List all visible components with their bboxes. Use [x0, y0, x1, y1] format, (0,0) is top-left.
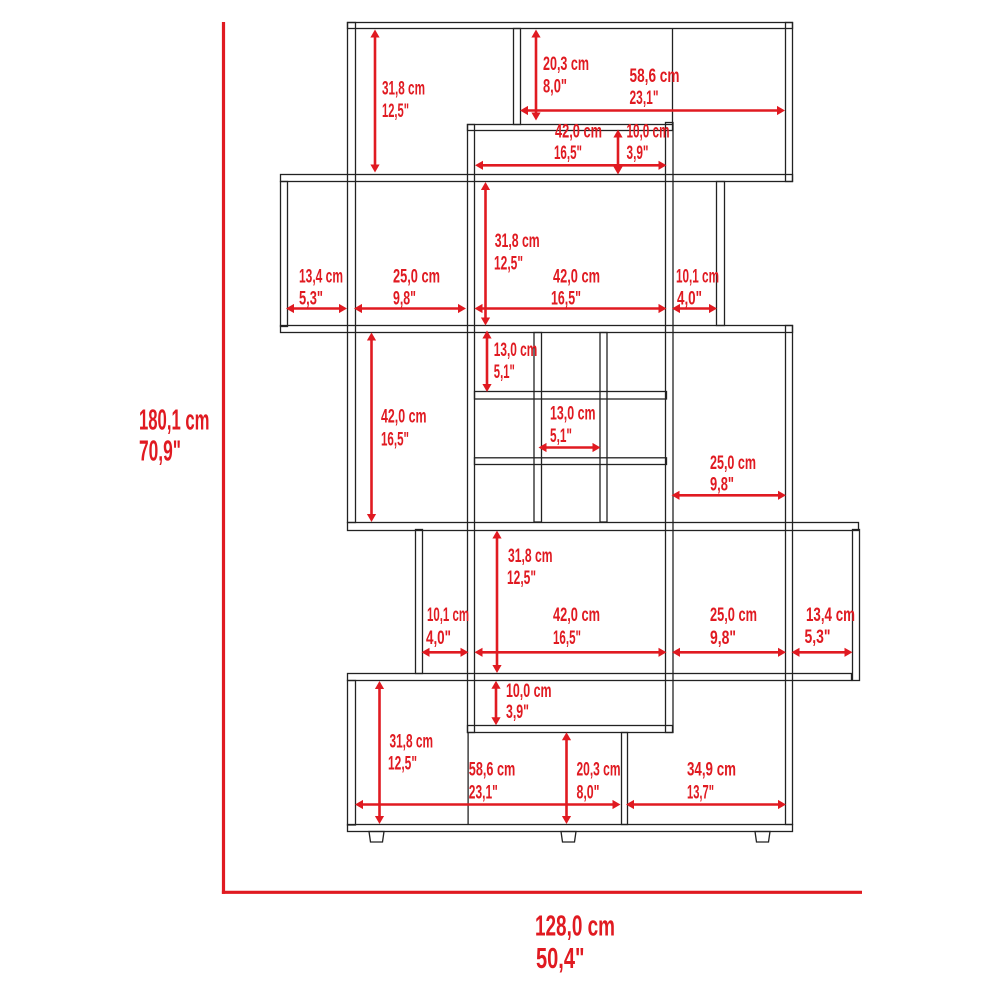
overall width dimension line [222, 891, 862, 894]
tower bottom height arrow 10,0 [491, 681, 500, 725]
svg-text:42,0 cm: 42,0 cm [553, 267, 600, 288]
level 1 height arrow 20,3 [531, 30, 540, 121]
label 5,1 in level 3 top [494, 362, 515, 383]
label 25,0 cm level 4 [710, 605, 757, 626]
slab between level 2 and level 3 [281, 326, 793, 333]
label 13,0 cm level 3 top [494, 340, 538, 361]
left foot [369, 832, 384, 843]
label 20,3 cm level 1 [543, 54, 589, 75]
level 5 width arrow 34,9 [626, 800, 786, 809]
level 2 width arrow 10,1 [672, 304, 717, 313]
level 1 divider panel [514, 29, 521, 125]
level 3 height arrow 42,0 [367, 333, 376, 523]
left panel level 5 [348, 681, 356, 826]
label 13,0 cm level 3 mid [550, 404, 596, 425]
level 4 width arrow 13,4 [792, 648, 853, 657]
label 10,1 cm level 2 [676, 267, 719, 288]
tower left panel [468, 125, 475, 733]
svg-text:4,0": 4,0" [677, 288, 702, 309]
label overall width 50,4 in [536, 943, 585, 975]
right panel levels 3-5 [786, 326, 793, 825]
level 2 right panel [717, 182, 725, 326]
label 25,0 cm level 2 [393, 267, 440, 288]
svg-text:42,0 cm: 42,0 cm [555, 122, 602, 143]
svg-text:31,8 cm: 31,8 cm [390, 732, 434, 753]
svg-text:20,3 cm: 20,3 cm [543, 54, 589, 75]
label 20,3 cm level 5 [577, 760, 621, 781]
svg-text:10,0 cm: 10,0 cm [627, 122, 670, 143]
level 2 width arrow 42,0 [475, 304, 667, 313]
svg-text:42,0 cm: 42,0 cm [553, 605, 600, 626]
label 10,1 cm level 4 [427, 605, 469, 626]
middle foot [561, 832, 576, 843]
svg-text:5,3": 5,3" [805, 627, 831, 648]
label 16,5 in level 3 [381, 429, 409, 450]
svg-text:13,7": 13,7" [687, 782, 714, 803]
label 8,0 in level 1 [543, 77, 567, 98]
svg-text:31,8 cm: 31,8 cm [495, 231, 540, 252]
slab between level 3 and level 4 [348, 523, 859, 531]
svg-text:8,0": 8,0" [543, 77, 567, 98]
svg-text:16,5": 16,5" [551, 288, 581, 309]
label 34,9 cm level 5 [687, 760, 736, 781]
label 4,0 in level 2 [677, 288, 702, 309]
svg-text:31,8 cm: 31,8 cm [382, 79, 425, 100]
svg-text:42,0 cm: 42,0 cm [381, 407, 427, 428]
label overall height 180,1 cm [139, 405, 210, 437]
svg-text:180,1 cm: 180,1 cm [139, 405, 210, 437]
label 13,7 in level 5 [687, 782, 714, 803]
tower bottom slab [468, 726, 673, 733]
svg-text:5,3": 5,3" [299, 288, 323, 309]
label 8,0 in level 5 [577, 782, 600, 803]
tower top slab [468, 125, 673, 131]
svg-text:23,1": 23,1" [630, 88, 659, 109]
label 16,5 in level 4 [553, 628, 581, 649]
level 5 height arrow 31,8 [375, 681, 384, 824]
svg-text:25,0 cm: 25,0 cm [393, 267, 440, 288]
label 42,0 cm level 4 [553, 605, 600, 626]
label 23,1 in level 1 [630, 88, 659, 109]
level 4 width arrow 25,0 [672, 648, 786, 657]
level 4 width arrow 42,0 [475, 648, 667, 657]
tower top width arrow 42,0 [475, 161, 667, 170]
svg-text:10,1 cm: 10,1 cm [427, 605, 469, 626]
level 5 thin divider line [467, 732, 469, 824]
label 9,8 in level 4 [710, 628, 736, 649]
level 5 height arrow 20,3 [562, 732, 571, 824]
tower right panel [666, 123, 674, 733]
svg-text:5,1": 5,1" [494, 362, 515, 383]
label 16,5 in level 2 [551, 288, 581, 309]
bottom slab of level 5 [348, 825, 793, 832]
level 4 right panel [853, 530, 860, 681]
label 10,0 cm tower top [627, 122, 670, 143]
label 12,5 in level 1 [382, 101, 409, 122]
level 3 height arrow 13,0 [482, 331, 491, 393]
svg-text:25,0 cm: 25,0 cm [710, 453, 756, 474]
label 5,3 in level 2 [299, 288, 323, 309]
label 5,1 in level 3 mid [550, 426, 572, 447]
tower top height arrow 10,0 [613, 130, 622, 175]
svg-text:13,0 cm: 13,0 cm [494, 340, 538, 361]
label 12,5 in level 4 [507, 568, 536, 589]
svg-text:34,9 cm: 34,9 cm [687, 760, 736, 781]
label 3,9 in tower top [627, 143, 649, 164]
svg-text:23,1": 23,1" [469, 782, 498, 803]
overall height dimension line [222, 22, 225, 894]
tower grid divider left [534, 333, 542, 523]
right foot [755, 832, 770, 843]
label 3,9 in tower bottom [506, 702, 529, 723]
top slab of level 1 [348, 23, 793, 29]
label 31,8 cm level 5 [390, 732, 434, 753]
svg-text:9,8": 9,8" [710, 628, 736, 649]
label 13,4 cm level 2 [299, 267, 343, 288]
svg-text:20,3 cm: 20,3 cm [577, 760, 621, 781]
label 10,0 cm tower bottom [506, 681, 552, 702]
label 5,3 in level 4 [805, 627, 831, 648]
slab between level 1 and level 2 [281, 175, 793, 182]
level 4 height arrow 31,8 [492, 531, 501, 674]
level 1 width arrow 58,6 [520, 106, 785, 115]
label 31,8 cm level 2 [495, 231, 540, 252]
svg-text:13,0 cm: 13,0 cm [550, 404, 596, 425]
svg-text:12,5": 12,5" [388, 754, 417, 775]
label 13,4 cm level 4 [806, 605, 855, 626]
label overall width 128,0 cm [535, 911, 615, 943]
svg-text:12,5": 12,5" [494, 254, 523, 275]
left panel levels 1-3 [348, 23, 356, 523]
svg-text:31,8 cm: 31,8 cm [508, 546, 553, 567]
label 4,0 in level 4 [426, 628, 451, 649]
label 42,0 cm tower top [555, 122, 602, 143]
level 4 width arrow 10,1 [422, 648, 469, 657]
svg-text:16,5": 16,5" [553, 628, 581, 649]
label 42,0 cm level 2 [553, 267, 600, 288]
label 9,8 in level 3 [710, 474, 734, 495]
svg-text:128,0 cm: 128,0 cm [535, 911, 615, 943]
svg-text:12,5": 12,5" [382, 101, 409, 122]
tower grid shelf upper [475, 392, 667, 400]
svg-text:3,9": 3,9" [506, 702, 529, 723]
label 31,8 cm level 1 [382, 79, 425, 100]
label 25,0 cm level 3 [710, 453, 756, 474]
svg-text:13,4 cm: 13,4 cm [806, 605, 855, 626]
level 2 left panel [281, 182, 288, 327]
level 1 right panel [786, 23, 793, 182]
label overall height 70,9 in [139, 436, 181, 468]
slab between level 4 and level 5 [348, 674, 852, 681]
svg-text:16,5": 16,5" [554, 143, 582, 164]
svg-text:9,8": 9,8" [710, 474, 734, 495]
tower grid shelf lower [475, 458, 667, 465]
svg-text:25,0 cm: 25,0 cm [710, 605, 757, 626]
label 31,8 cm level 4 [508, 546, 553, 567]
svg-text:3,9": 3,9" [627, 143, 649, 164]
tower grid divider right [600, 333, 607, 523]
label 23,1 in level 5 [469, 782, 498, 803]
svg-text:12,5": 12,5" [507, 568, 536, 589]
svg-text:58,6 cm: 58,6 cm [630, 66, 680, 87]
level 4 left panel [416, 530, 423, 674]
level 2 width arrow 13,4 [286, 304, 347, 313]
label 16,5 in tower top [554, 143, 582, 164]
level 3 width arrow 13,0 [539, 443, 601, 452]
level 5 divider panel [622, 733, 628, 825]
label 58,6 cm level 1 [630, 66, 680, 87]
label 9,8 in level 2 [393, 288, 416, 309]
svg-text:58,6 cm: 58,6 cm [469, 760, 516, 781]
level 5 width arrow 58,6 [355, 800, 621, 809]
svg-text:8,0": 8,0" [577, 782, 600, 803]
level 2 height arrow 31,8 [481, 182, 490, 326]
label 12,5 in level 2 [494, 254, 523, 275]
svg-text:9,8": 9,8" [393, 288, 416, 309]
svg-text:13,4 cm: 13,4 cm [299, 267, 343, 288]
svg-text:5,1": 5,1" [550, 426, 572, 447]
svg-text:4,0": 4,0" [426, 628, 451, 649]
level 1 height arrow 31,8 [370, 30, 379, 173]
label 58,6 cm level 5 [469, 760, 516, 781]
level 1 thin divider line [672, 28, 674, 124]
level 2 width arrow 25,0 [354, 304, 466, 313]
label 12,5 in level 5 [388, 754, 417, 775]
svg-text:10,0 cm: 10,0 cm [506, 681, 552, 702]
level 3 width arrow 25,0 [672, 491, 787, 500]
svg-text:70,9": 70,9" [139, 436, 181, 468]
label 42,0 cm level 3 [381, 407, 427, 428]
svg-text:16,5": 16,5" [381, 429, 409, 450]
svg-text:10,1 cm: 10,1 cm [676, 267, 719, 288]
svg-text:50,4": 50,4" [536, 943, 585, 975]
